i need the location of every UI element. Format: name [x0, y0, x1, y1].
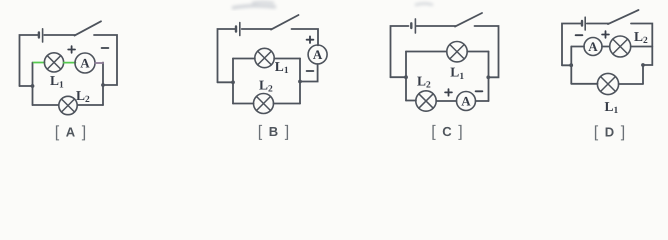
svg-text:A: A [80, 56, 90, 71]
svg-text:A: A [66, 125, 76, 140]
svg-text:[: [ [258, 124, 263, 141]
svg-text:A: A [461, 94, 471, 109]
svg-text:]: ] [458, 124, 462, 141]
svg-text:A: A [588, 39, 598, 54]
svg-text:]: ] [82, 124, 86, 141]
svg-text:[: [ [55, 124, 60, 141]
svg-text:B: B [269, 124, 278, 139]
svg-text:]: ] [285, 124, 289, 141]
svg-text:D: D [605, 125, 614, 140]
svg-text:C: C [442, 124, 452, 139]
svg-text:[: [ [594, 124, 599, 141]
svg-text:]: ] [621, 124, 625, 141]
svg-text:[: [ [431, 124, 436, 141]
svg-text:A: A [313, 47, 323, 62]
